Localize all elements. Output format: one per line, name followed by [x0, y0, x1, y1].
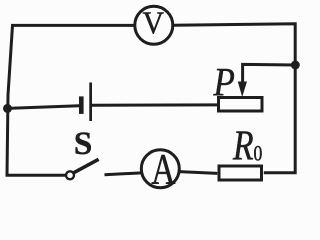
switch S [66, 126, 99, 179]
wire top-left + left side + bottom-left run [7, 25, 135, 175]
battery cell [79, 83, 92, 122]
svg-text:A: A [151, 147, 175, 194]
resistor R0 [219, 123, 262, 180]
junction node left [3, 104, 12, 113]
potentiometer P [213, 62, 262, 111]
svg-text:S: S [74, 126, 92, 162]
junction node right [291, 61, 300, 70]
wire left node to battery [8, 106, 80, 109]
wire battery to potentiometer [92, 103, 217, 106]
wiper arrow [238, 82, 247, 98]
wire wiper branch from right node [243, 64, 296, 83]
ammeter A [141, 147, 179, 194]
svg-text:P: P [213, 62, 235, 106]
wire top-right + right side + bottom-right run [173, 24, 295, 173]
wire ammeter to resistor R0 [179, 172, 217, 174]
svg-text:V: V [143, 5, 164, 41]
wire switch to ammeter [105, 173, 142, 175]
voltmeter V [135, 5, 173, 45]
